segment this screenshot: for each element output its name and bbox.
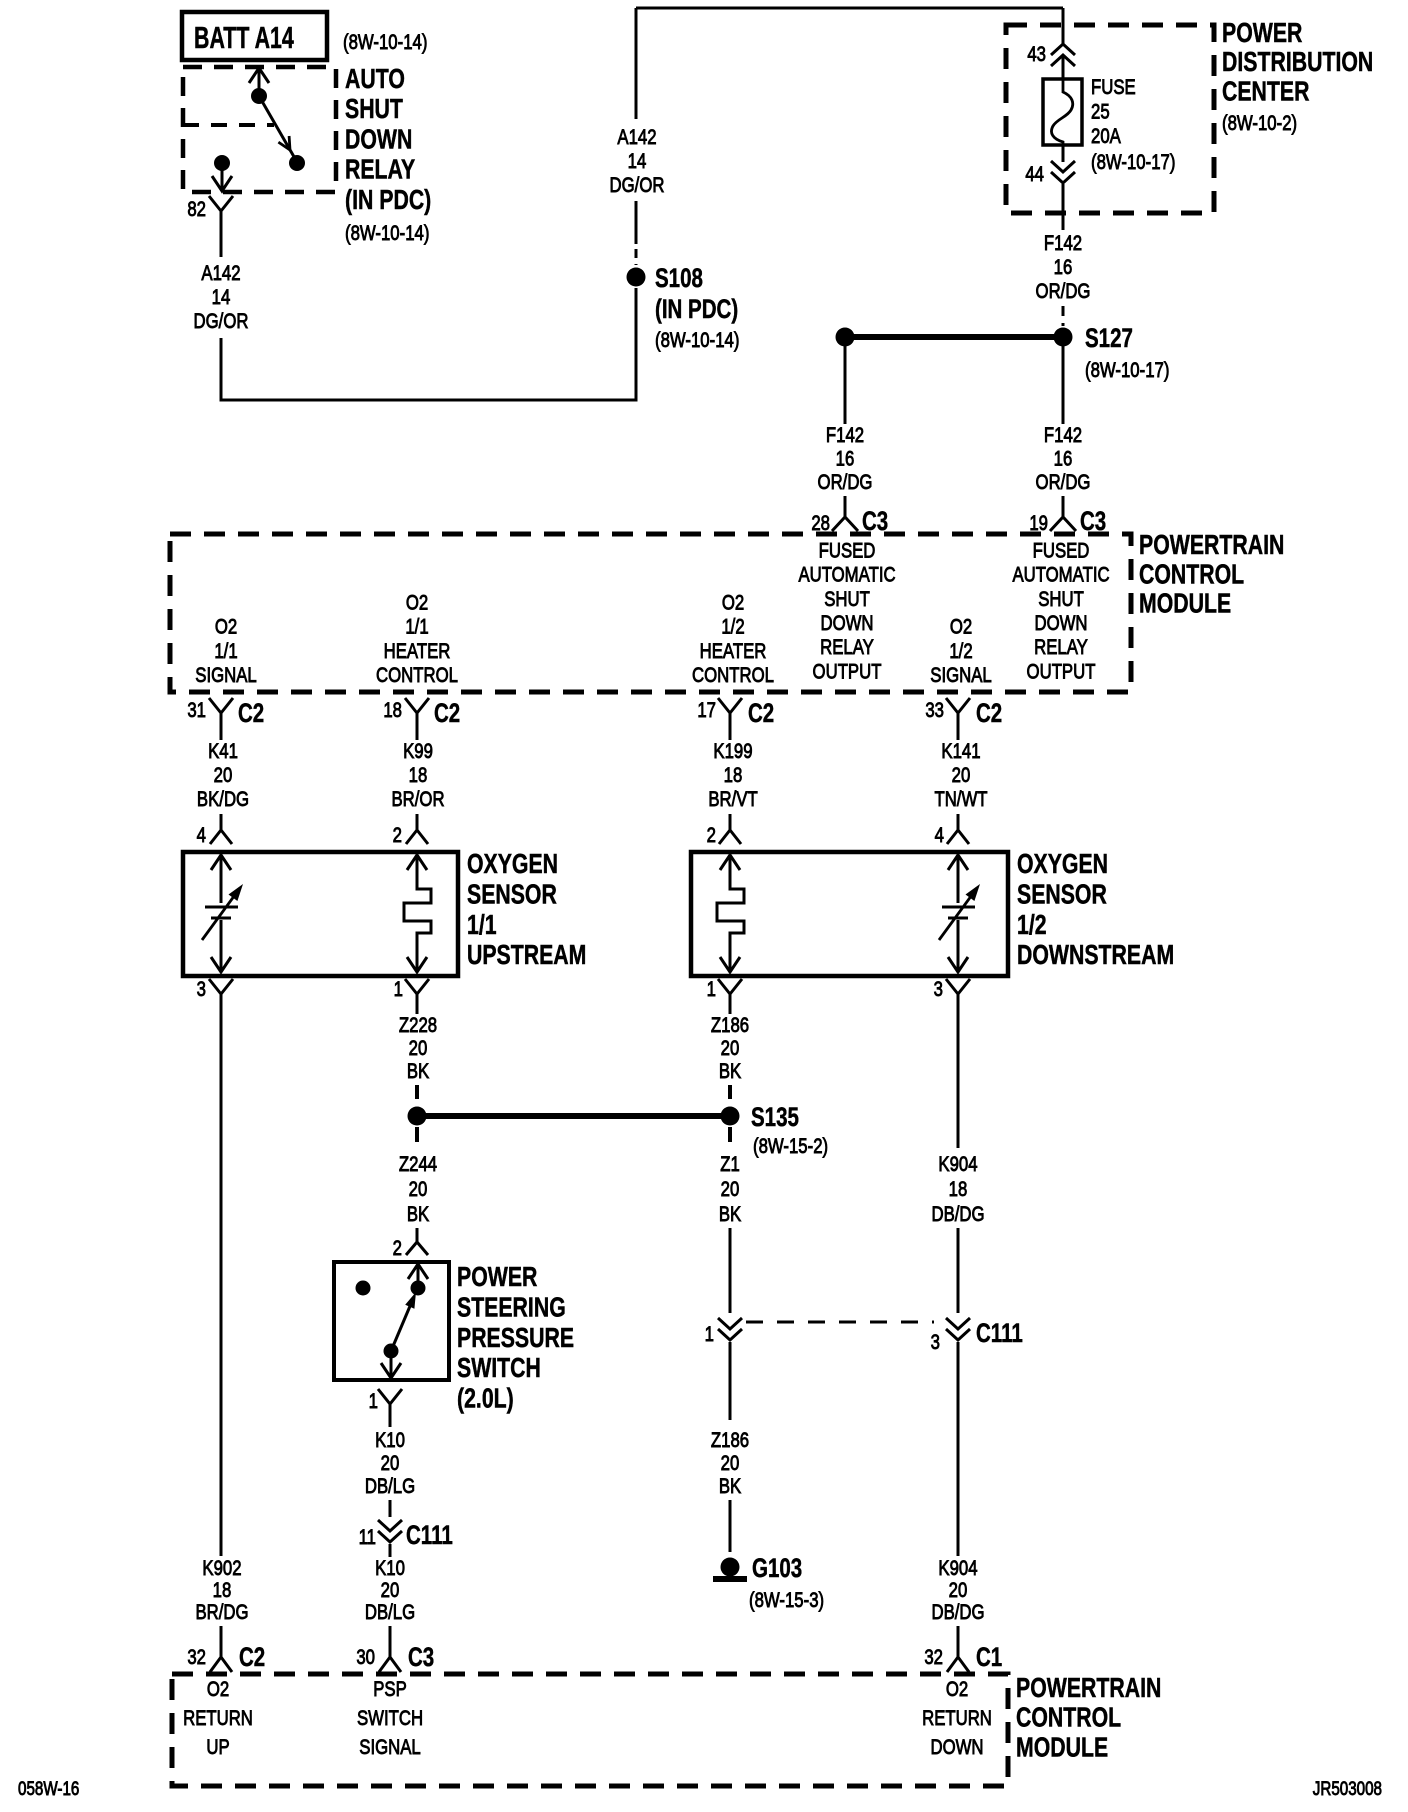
O2 1/1 heater element xyxy=(407,855,427,870)
svg-text:18: 18 xyxy=(409,764,428,787)
svg-text:MODULE: MODULE xyxy=(1139,588,1231,620)
svg-text:K99: K99 xyxy=(403,740,433,763)
C111 connector separation (dashed) xyxy=(746,1321,934,1324)
svg-text:F142: F142 xyxy=(826,424,864,447)
svg-text:2: 2 xyxy=(393,1237,402,1260)
svg-text:(8W-10-17): (8W-10-17) xyxy=(1091,151,1175,174)
relay contact to pin 82 xyxy=(214,155,230,171)
wire from top to S108 xyxy=(635,8,638,119)
O2 1/1 sensing element (variable cell) xyxy=(211,855,231,870)
svg-text:32: 32 xyxy=(924,1646,943,1669)
svg-text:16: 16 xyxy=(1054,448,1073,471)
svg-text:20: 20 xyxy=(949,1579,968,1602)
svg-text:RELAY: RELAY xyxy=(1034,636,1088,659)
svg-text:SENSOR: SENSOR xyxy=(1017,879,1107,911)
wire from sensor 1/2 pin 1 to splice S135 xyxy=(728,1085,732,1106)
svg-text:Z228: Z228 xyxy=(399,1014,437,1037)
svg-text:1: 1 xyxy=(707,978,716,1001)
svg-text:C2: C2 xyxy=(434,698,460,728)
svg-text:33: 33 xyxy=(925,699,944,722)
svg-text:30: 30 xyxy=(356,1646,375,1669)
svg-text:C111: C111 xyxy=(406,1520,453,1550)
fuse 25 20A xyxy=(1043,79,1082,145)
svg-text:CONTROL: CONTROL xyxy=(1139,559,1244,591)
svg-text:O2: O2 xyxy=(950,616,972,639)
svg-text:(8W-15-2): (8W-15-2) xyxy=(753,1135,828,1158)
svg-text:UP: UP xyxy=(206,1736,229,1759)
svg-text:4: 4 xyxy=(935,824,945,847)
svg-text:SHUT: SHUT xyxy=(1038,588,1084,611)
svg-text:POWER: POWER xyxy=(1222,17,1302,49)
svg-text:(8W-10-17): (8W-10-17) xyxy=(1085,359,1169,382)
svg-text:25: 25 xyxy=(1091,101,1110,124)
svg-text:K902: K902 xyxy=(202,1557,241,1580)
svg-text:BK: BK xyxy=(719,1203,741,1226)
svg-text:20: 20 xyxy=(381,1579,400,1602)
svg-text:Z244: Z244 xyxy=(399,1153,437,1176)
wire from sensor 1/2 pin 3 down xyxy=(957,1014,960,1148)
svg-text:POWER: POWER xyxy=(457,1261,537,1293)
svg-text:CONTROL: CONTROL xyxy=(692,664,774,687)
svg-text:G103: G103 xyxy=(752,1553,802,1583)
svg-text:S108: S108 xyxy=(655,263,703,293)
svg-text:CENTER: CENTER xyxy=(1222,76,1309,108)
svg-text:1: 1 xyxy=(705,1323,714,1346)
O2 1/2 heater element xyxy=(720,855,740,870)
svg-text:18: 18 xyxy=(213,1579,232,1602)
splice S127 xyxy=(1054,328,1073,347)
svg-text:(IN PDC): (IN PDC) xyxy=(655,294,738,324)
svg-text:UPSTREAM: UPSTREAM xyxy=(467,939,586,971)
svg-text:K10: K10 xyxy=(375,1557,405,1580)
svg-text:1/2: 1/2 xyxy=(949,640,972,663)
svg-text:AUTO: AUTO xyxy=(345,63,405,95)
svg-text:FUSE: FUSE xyxy=(1091,76,1136,99)
wire below S135 right xyxy=(728,1127,732,1150)
svg-text:RETURN: RETURN xyxy=(922,1707,992,1730)
svg-text:K10: K10 xyxy=(375,1429,405,1452)
svg-text:20: 20 xyxy=(952,764,971,787)
wire from S127 right branch down xyxy=(1062,337,1065,424)
wire K904 to C111 pin 3 xyxy=(957,1228,960,1313)
svg-text:DG/OR: DG/OR xyxy=(194,310,249,333)
svg-text:SWITCH: SWITCH xyxy=(357,1707,423,1730)
svg-text:O2: O2 xyxy=(207,1678,229,1701)
svg-text:16: 16 xyxy=(1054,256,1073,279)
power steering pressure switch (box) xyxy=(334,1262,449,1380)
svg-text:DOWN: DOWN xyxy=(345,124,412,156)
svg-text:DB/DG: DB/DG xyxy=(931,1601,984,1624)
svg-text:20: 20 xyxy=(721,1452,740,1475)
svg-text:44: 44 xyxy=(1025,163,1044,186)
svg-text:BK: BK xyxy=(719,1475,741,1498)
svg-text:14: 14 xyxy=(212,286,231,309)
svg-text:1: 1 xyxy=(394,978,403,1001)
wire below S135 left xyxy=(415,1127,419,1150)
svg-text:SIGNAL: SIGNAL xyxy=(359,1736,421,1759)
svg-text:20: 20 xyxy=(409,1037,428,1060)
svg-text:CONTROL: CONTROL xyxy=(1016,1702,1121,1734)
splice S135 xyxy=(408,1107,427,1126)
wire to splice S127 xyxy=(1062,306,1065,326)
svg-text:(8W-10-2): (8W-10-2) xyxy=(1222,112,1297,135)
svg-text:058W-16: 058W-16 xyxy=(18,1777,79,1799)
svg-text:OR/DG: OR/DG xyxy=(1036,471,1091,494)
svg-text:14: 14 xyxy=(628,150,647,173)
svg-text:F142: F142 xyxy=(1044,232,1082,255)
wire from sensor 1/1 pin 1 to splice S135 xyxy=(415,1085,419,1106)
svg-text:A142: A142 xyxy=(201,262,240,285)
oxygen sensor 1/1 upstream (box) xyxy=(183,852,458,976)
svg-text:82: 82 xyxy=(187,198,206,221)
svg-text:O2: O2 xyxy=(722,592,744,615)
svg-text:3: 3 xyxy=(934,978,943,1001)
relay contact arm xyxy=(258,70,261,96)
svg-text:TN/WT: TN/WT xyxy=(934,788,987,811)
svg-text:C3: C3 xyxy=(408,1642,434,1672)
svg-text:1/1: 1/1 xyxy=(467,909,497,941)
svg-text:C2: C2 xyxy=(238,698,264,728)
svg-text:A142: A142 xyxy=(617,126,656,149)
power distribution center (dashed box) xyxy=(1006,25,1214,213)
svg-text:C2: C2 xyxy=(976,698,1002,728)
svg-text:K41: K41 xyxy=(208,740,238,763)
svg-text:18: 18 xyxy=(724,764,743,787)
PSP switch contacts xyxy=(408,1264,428,1279)
svg-text:(8W-10-14): (8W-10-14) xyxy=(345,222,429,245)
svg-text:K904: K904 xyxy=(938,1557,977,1580)
svg-text:Z1: Z1 xyxy=(720,1153,740,1176)
svg-text:STEERING: STEERING xyxy=(457,1292,566,1324)
svg-text:SHUT: SHUT xyxy=(824,588,870,611)
svg-text:16: 16 xyxy=(836,448,855,471)
svg-text:DG/OR: DG/OR xyxy=(610,174,665,197)
svg-text:2: 2 xyxy=(393,824,402,847)
svg-text:18: 18 xyxy=(383,699,402,722)
svg-text:JR503008: JR503008 xyxy=(1313,1777,1382,1799)
PCM connector pin 32 C1 (bottom) xyxy=(957,1626,960,1644)
svg-text:31: 31 xyxy=(187,699,206,722)
svg-text:DOWN: DOWN xyxy=(930,1736,983,1759)
svg-text:C2: C2 xyxy=(748,698,774,728)
svg-text:FUSED: FUSED xyxy=(1033,540,1090,563)
battery feed box BATT A14 xyxy=(182,12,327,60)
powertrain control module (dashed box) xyxy=(170,534,1131,692)
svg-text:OXYGEN: OXYGEN xyxy=(467,848,558,880)
svg-text:K141: K141 xyxy=(941,740,980,763)
wire from S127 left branch down xyxy=(844,337,847,424)
svg-text:Z186: Z186 xyxy=(711,1014,749,1037)
svg-text:O2: O2 xyxy=(946,1678,968,1701)
svg-text:POWERTRAIN: POWERTRAIN xyxy=(1016,1672,1161,1704)
oxygen sensor 1/2 downstream (box) xyxy=(691,852,1008,976)
wire from S108 up over to power distribution center xyxy=(636,7,1063,10)
svg-text:S135: S135 xyxy=(751,1102,799,1132)
wire to ground G103 xyxy=(729,1500,732,1552)
svg-text:3: 3 xyxy=(931,1331,940,1354)
svg-text:OR/DG: OR/DG xyxy=(818,471,873,494)
svg-text:BR/VT: BR/VT xyxy=(708,788,758,811)
svg-text:(IN PDC): (IN PDC) xyxy=(345,184,431,216)
svg-text:SWITCH: SWITCH xyxy=(457,1352,541,1384)
svg-text:OXYGEN: OXYGEN xyxy=(1017,848,1108,880)
svg-text:PRESSURE: PRESSURE xyxy=(457,1322,574,1354)
svg-text:C111: C111 xyxy=(976,1318,1023,1348)
svg-text:43: 43 xyxy=(1027,43,1046,66)
svg-text:SHUT: SHUT xyxy=(345,93,403,125)
svg-text:DB/DG: DB/DG xyxy=(931,1203,984,1226)
svg-text:11: 11 xyxy=(359,1526,376,1549)
svg-text:(8W-10-14): (8W-10-14) xyxy=(655,329,739,352)
svg-text:Z186: Z186 xyxy=(711,1429,749,1452)
svg-text:20: 20 xyxy=(381,1452,400,1475)
PSP switch pin 2 xyxy=(416,1228,419,1242)
svg-text:BK: BK xyxy=(407,1060,429,1083)
svg-text:20A: 20A xyxy=(1091,125,1121,148)
svg-text:POWERTRAIN: POWERTRAIN xyxy=(1139,529,1284,561)
svg-text:17: 17 xyxy=(697,699,716,722)
svg-text:HEATER: HEATER xyxy=(384,640,451,663)
in-line connector pin 11 C111 xyxy=(389,1500,392,1517)
svg-text:BK: BK xyxy=(719,1060,741,1083)
wire from Z1 to C111 pin 1 xyxy=(729,1228,732,1313)
svg-text:2: 2 xyxy=(707,824,716,847)
svg-text:20: 20 xyxy=(721,1037,740,1060)
svg-text:OUTPUT: OUTPUT xyxy=(1027,661,1096,684)
svg-text:AUTOMATIC: AUTOMATIC xyxy=(798,564,895,587)
O2 1/2 sensing element (variable cell) xyxy=(948,855,968,870)
ground G103 xyxy=(721,1558,740,1577)
svg-text:(8W-10-14): (8W-10-14) xyxy=(343,31,427,54)
svg-text:1: 1 xyxy=(369,1390,378,1413)
svg-text:AUTOMATIC: AUTOMATIC xyxy=(1012,564,1109,587)
svg-text:OR/DG: OR/DG xyxy=(1036,280,1091,303)
svg-text:C1: C1 xyxy=(976,1642,1002,1672)
svg-text:RELAY: RELAY xyxy=(820,636,874,659)
svg-text:DOWNSTREAM: DOWNSTREAM xyxy=(1017,939,1174,971)
svg-text:BR/OR: BR/OR xyxy=(391,788,444,811)
svg-text:SENSOR: SENSOR xyxy=(467,879,557,911)
svg-text:F142: F142 xyxy=(1044,424,1082,447)
svg-text:3: 3 xyxy=(197,978,206,1001)
svg-text:SIGNAL: SIGNAL xyxy=(930,664,992,687)
svg-text:BK: BK xyxy=(407,1203,429,1226)
svg-text:OUTPUT: OUTPUT xyxy=(813,661,882,684)
svg-text:1/2: 1/2 xyxy=(1017,909,1047,941)
svg-text:RETURN: RETURN xyxy=(183,1707,253,1730)
splice S108 xyxy=(627,268,646,287)
svg-text:1/1: 1/1 xyxy=(214,640,237,663)
svg-text:SIGNAL: SIGNAL xyxy=(195,664,257,687)
powertrain control module bottom (dashed box) xyxy=(172,1674,1008,1786)
svg-text:K199: K199 xyxy=(713,740,752,763)
svg-text:MODULE: MODULE xyxy=(1016,1732,1108,1764)
PCM connector pin 30 C3 (bottom) xyxy=(389,1626,392,1644)
svg-text:CONTROL: CONTROL xyxy=(376,664,458,687)
svg-text:DB/LG: DB/LG xyxy=(365,1475,415,1498)
wire from pin 82 to splice S108 xyxy=(221,288,636,400)
svg-text:HEATER: HEATER xyxy=(700,640,767,663)
svg-text:20: 20 xyxy=(214,764,233,787)
svg-text:DOWN: DOWN xyxy=(1034,612,1087,635)
svg-text:32: 32 xyxy=(187,1646,206,1669)
svg-text:PSP: PSP xyxy=(373,1678,407,1701)
wire K902 (O2 return up) long run xyxy=(220,1014,223,1556)
svg-text:RELAY: RELAY xyxy=(345,154,416,186)
auto shut down relay (dashed box) xyxy=(183,67,336,192)
svg-text:BK/DG: BK/DG xyxy=(197,788,249,811)
svg-text:K904: K904 xyxy=(938,1153,977,1176)
svg-text:BATT A14: BATT A14 xyxy=(194,20,294,55)
svg-text:C2: C2 xyxy=(239,1642,265,1672)
svg-text:DOWN: DOWN xyxy=(820,612,873,635)
svg-text:O2: O2 xyxy=(215,616,237,639)
svg-text:1/2: 1/2 xyxy=(721,616,744,639)
wire K904 to PCM xyxy=(957,1342,960,1556)
svg-text:(8W-15-3): (8W-15-3) xyxy=(749,1589,824,1612)
svg-text:18: 18 xyxy=(949,1178,968,1201)
PCM connector pin 32 C2 (bottom) xyxy=(220,1626,223,1644)
svg-text:20: 20 xyxy=(409,1178,428,1201)
svg-text:O2: O2 xyxy=(406,592,428,615)
svg-text:(2.0L): (2.0L) xyxy=(457,1383,514,1415)
svg-text:FUSED: FUSED xyxy=(819,540,876,563)
svg-text:BR/DG: BR/DG xyxy=(195,1601,248,1624)
svg-text:DISTRIBUTION: DISTRIBUTION xyxy=(1222,46,1373,78)
svg-text:20: 20 xyxy=(721,1178,740,1201)
svg-text:DB/LG: DB/LG xyxy=(365,1601,415,1624)
svg-text:S127: S127 xyxy=(1085,323,1133,353)
svg-text:1/1: 1/1 xyxy=(405,616,428,639)
svg-text:4: 4 xyxy=(197,824,207,847)
